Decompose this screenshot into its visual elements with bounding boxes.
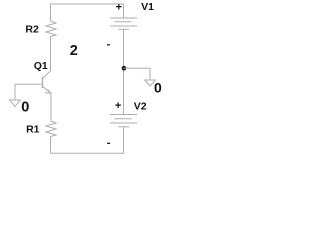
svg-text:0: 0	[21, 99, 29, 115]
ground right	[145, 80, 156, 86]
wire: R2 bottom to Q1 collector	[50, 37, 52, 72]
battery V2 plate long bottom	[110, 122, 137, 124]
svg-text:R1: R1	[26, 124, 40, 136]
transistor Q1 collector lead	[43, 71, 51, 78]
svg-text:V1: V1	[141, 1, 154, 13]
svg-text:V2: V2	[134, 100, 147, 112]
resistor R1	[46, 121, 56, 137]
transistor Q1 emitter lead	[43, 87, 51, 94]
svg-text:Q1: Q1	[34, 60, 48, 72]
svg-text:R2: R2	[25, 23, 39, 35]
battery V2 plate long top	[110, 114, 137, 116]
battery V1 plate short bottom	[119, 28, 129, 30]
svg-text:+: +	[115, 100, 121, 112]
battery V1 plate short	[114, 21, 131, 23]
svg-text:+: +	[116, 1, 122, 13]
wire: Q1 emitter to R1 top	[50, 93, 53, 121]
svg-text:2: 2	[70, 43, 78, 59]
wire bottom: R1 bottom to V2 minus terminal	[51, 127, 124, 153]
battery V2 plate short bottom	[119, 126, 129, 128]
wire: V1 minus to V2 plus rail	[123, 29, 125, 114]
svg-text:0: 0	[154, 79, 162, 95]
battery V2 plate short	[114, 118, 131, 120]
battery V1 plate long top	[110, 17, 137, 19]
wire: Q1 base to left ground	[15, 84, 43, 100]
wire: node to right ground	[124, 68, 151, 80]
wire top: R2 top to V1 plus terminal	[51, 4, 124, 21]
resistor R2	[46, 21, 56, 37]
svg-text:-: -	[107, 137, 111, 149]
transistor Q1 emitter arrow	[45, 89, 51, 93]
ground left	[10, 100, 21, 107]
transistor Q1 base bar	[42, 77, 44, 88]
battery V1 plate long bottom	[110, 25, 137, 27]
svg-text:-: -	[107, 38, 111, 50]
node junction dot	[122, 66, 127, 71]
